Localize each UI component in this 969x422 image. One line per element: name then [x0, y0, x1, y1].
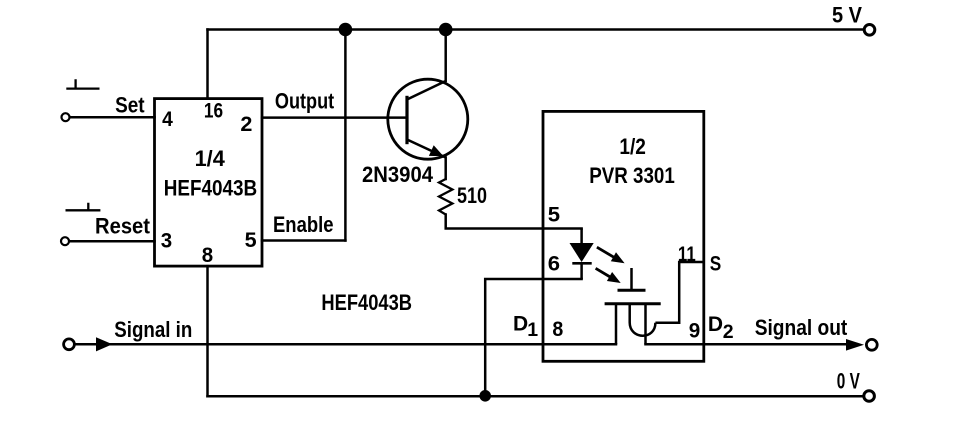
light arrow 2 — [596, 268, 611, 277]
terminal Set input — [62, 113, 70, 121]
node junction dot at 0V rail / pin6 — [479, 390, 491, 402]
terminal 0V — [864, 391, 875, 402]
wire signal in / D1 drain line — [75, 343, 616, 346]
wire collector vertical to 5V rail — [444, 30, 447, 82]
MOSFET Q2 inside PVR — [605, 262, 704, 344]
wire Output pin2 to transistor base — [262, 116, 406, 119]
wire 0V rail — [208, 395, 863, 398]
light arrow 1 — [597, 247, 616, 258]
svg-text:PVR 3301: PVR 3301 — [589, 163, 675, 188]
svg-text:9: 9 — [689, 320, 701, 343]
svg-text:S: S — [710, 253, 722, 276]
svg-text:HEF4043B: HEF4043B — [321, 290, 412, 315]
svg-text:3: 3 — [161, 230, 172, 253]
terminal 5V — [864, 25, 875, 36]
wire Reset input — [70, 240, 154, 243]
drain 1 leg — [615, 304, 618, 345]
svg-text:1/4: 1/4 — [195, 146, 226, 171]
svg-text:5 V: 5 V — [832, 2, 862, 27]
svg-text:2: 2 — [240, 113, 252, 136]
svg-text:6: 6 — [548, 253, 560, 276]
wire Set input — [71, 116, 155, 119]
svg-text:510: 510 — [457, 183, 487, 208]
body cup arc — [630, 323, 656, 336]
resistor R1 510 — [439, 179, 452, 215]
gate lead — [630, 268, 633, 290]
source wire to pin 11 — [655, 262, 703, 323]
transistor emitter arrowhead — [429, 145, 444, 156]
svg-text:Set: Set — [115, 93, 145, 118]
wire pin8 HEF to 0V rail — [206, 266, 209, 396]
svg-text:5: 5 — [245, 229, 257, 252]
arrow signal out — [846, 339, 864, 351]
IC U1 HEF4043B latch box — [155, 99, 263, 267]
svg-text:4: 4 — [162, 108, 173, 131]
LED D3 inside PVR — [580, 229, 583, 244]
IC U2 PVR 3301 box — [543, 111, 704, 361]
node junction dot at 5V rail / enable — [339, 23, 353, 37]
svg-text:Signal out: Signal out — [755, 315, 848, 340]
wire enable vertical to 5V rail — [344, 30, 347, 241]
wire resistor to PVR pin5 — [446, 215, 582, 229]
svg-text:2N3904: 2N3904 — [362, 162, 434, 187]
pulse symbol Set — [66, 79, 99, 88]
pulse symbol Reset — [66, 203, 101, 211]
terminal Signal out — [866, 339, 877, 350]
svg-text:1/2: 1/2 — [619, 134, 646, 159]
svg-text:8: 8 — [552, 318, 563, 341]
svg-text:D: D — [513, 312, 528, 335]
terminal Reset input — [61, 237, 69, 245]
svg-text:HEF4043B: HEF4043B — [164, 176, 258, 201]
terminal Signal in — [64, 339, 75, 350]
svg-text:8: 8 — [202, 244, 214, 267]
svg-text:16: 16 — [204, 100, 223, 123]
channel bar — [605, 302, 661, 305]
svg-text:Reset: Reset — [95, 214, 151, 239]
node junction dot at 5V rail / collector — [439, 23, 453, 37]
svg-text:D: D — [708, 313, 723, 336]
svg-text:5: 5 — [548, 203, 561, 226]
wire PVR pin6 to 0V rail — [485, 279, 581, 396]
wire Enable pin5 — [262, 239, 345, 242]
transistor Q1 2N3904 — [388, 79, 468, 159]
gate bar — [618, 289, 646, 292]
svg-text:2: 2 — [723, 321, 734, 343]
wire pin16 to 5V rail — [206, 30, 209, 99]
svg-text:0 V: 0 V — [837, 368, 860, 393]
svg-text:1: 1 — [527, 319, 538, 341]
arrow signal in — [96, 337, 112, 351]
wire D2 drain line / signal out — [646, 343, 847, 346]
wire emitter vertical — [444, 158, 447, 180]
body cup left leg — [628, 304, 631, 323]
wire 5V rail — [208, 28, 864, 31]
svg-text:Signal in: Signal in — [114, 317, 192, 342]
svg-text:Enable: Enable — [273, 212, 334, 237]
drain 2 leg — [644, 304, 647, 345]
svg-text:Output: Output — [275, 88, 335, 113]
